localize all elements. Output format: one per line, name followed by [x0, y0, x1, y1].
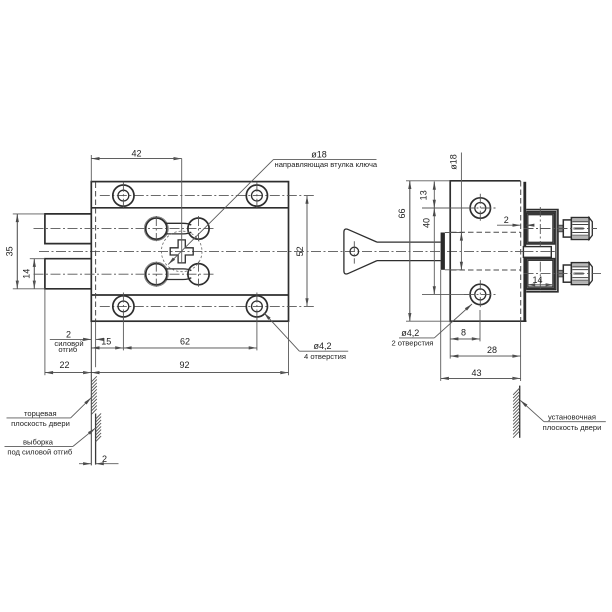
lower bolt centerline — [34, 273, 214, 275]
svg-text:13: 13 — [419, 190, 429, 200]
bottom holes centerline — [100, 305, 316, 307]
extension lines top/bottom of body — [406, 180, 450, 182]
dimension 8 — [450, 310, 480, 359]
dimension 2 (plate thickness) — [497, 215, 531, 225]
lower bolt housing — [526, 259, 554, 289]
dimension 22 — [45, 289, 91, 375]
svg-text:установочная: установочная — [548, 413, 596, 422]
door mounting plane line (установочная плоскость) — [519, 386, 521, 438]
key guide bushing (section) — [441, 233, 445, 270]
top holes centerline — [100, 195, 316, 197]
lower strip divider line — [91, 294, 288, 296]
bushing edge extension lines — [445, 232, 464, 234]
recess line (выборка под силовой отгиб) — [95, 414, 97, 465]
upper strip divider line — [91, 207, 288, 209]
upper knob centerline — [524, 228, 598, 230]
svg-text:42: 42 — [131, 148, 141, 158]
corner hole bottom-left — [113, 293, 134, 321]
svg-text:8: 8 — [461, 328, 466, 338]
middle tongue — [523, 247, 551, 258]
dimension o18 (bushing) — [448, 153, 461, 270]
leader выборка под силовой отгиб — [5, 428, 96, 456]
lower knob — [558, 263, 592, 285]
corner hole top-left — [113, 182, 134, 210]
svg-text:торцевая: торцевая — [24, 409, 57, 418]
upper knob — [558, 218, 592, 240]
svg-text:2 отверстия: 2 отверстия — [391, 339, 433, 348]
upper keyhole slot — [144, 216, 209, 241]
label o4,2 4 отверстия — [264, 313, 348, 361]
lower knob centerline — [524, 273, 602, 275]
dimension 2 (recess depth) — [79, 454, 119, 464]
bracket inner outline — [526, 212, 556, 290]
mounting plate (thick section) — [523, 182, 526, 321]
extension line at cross center (42 dim) — [181, 159, 183, 263]
lock body outline (side view) — [450, 181, 526, 321]
svg-text:22: 22 — [59, 360, 69, 370]
svg-text:28: 28 — [487, 345, 497, 355]
dimension 14 — [22, 259, 45, 289]
svg-text:40: 40 — [422, 218, 432, 228]
upper bolt centerline — [34, 228, 214, 230]
bracket outer outline — [526, 210, 558, 292]
svg-text:4 отверстия: 4 отверстия — [304, 352, 346, 361]
svg-text:плоскость двери: плоскость двери — [11, 419, 70, 428]
main horizontal centerline — [39, 250, 555, 252]
svg-text:52: 52 — [295, 246, 305, 256]
svg-text:2: 2 — [504, 215, 509, 225]
svg-text:под силовой отгиб: под силовой отгиб — [7, 448, 73, 457]
upper bolt tab — [45, 214, 91, 244]
extension lines at side holes — [422, 207, 471, 209]
svg-text:66: 66 — [397, 208, 407, 218]
dimension 52 — [295, 196, 307, 307]
leader торцевая плоскость двери — [7, 398, 92, 428]
svg-text:ø18: ø18 — [448, 154, 458, 170]
dimension 66 — [397, 181, 410, 321]
svg-text:ø4,2: ø4,2 — [401, 328, 419, 338]
svg-text:выборка: выборка — [23, 437, 54, 446]
dimension 13 and 40 — [419, 182, 435, 295]
svg-text:2: 2 — [102, 454, 107, 464]
svg-text:плоскость двери: плоскость двери — [543, 423, 602, 432]
dashed circle o18 guide bushing — [161, 231, 202, 272]
hatching on door end plane — [91, 376, 97, 414]
side hole top — [464, 194, 497, 223]
lock plate outline (front view) — [91, 182, 288, 322]
svg-text:ø4,2: ø4,2 — [313, 341, 331, 351]
label o4,2 2 отверстия — [391, 304, 472, 348]
dimension 62 — [123, 317, 257, 350]
svg-text:направляющая втулка ключа: направляющая втулка ключа — [275, 160, 378, 169]
dimension 35 — [5, 214, 45, 289]
dimension 2 (силовой отгиб) — [50, 329, 102, 354]
hidden bolt slot lines — [451, 231, 521, 233]
leader установочная плоскость двери — [520, 400, 606, 432]
upper bolt housing — [526, 213, 554, 244]
cross keyway — [170, 240, 193, 263]
svg-text:15: 15 — [101, 337, 111, 347]
dimension 28 — [450, 321, 520, 381]
hidden front face of mounting plate — [520, 181, 522, 321]
label o18 направляющая втулка ключа — [168, 149, 378, 264]
svg-text:35: 35 — [5, 246, 15, 256]
key — [344, 229, 441, 274]
hidden bend line (силовой отгиб) — [95, 183, 97, 321]
hatching on recess line — [96, 413, 102, 441]
corner hole top-right — [246, 182, 267, 210]
svg-text:62: 62 — [180, 337, 190, 347]
svg-text:14: 14 — [532, 275, 542, 285]
dimension 42 — [91, 148, 181, 181]
housings vertical centerline — [539, 207, 541, 247]
side hole bottom — [464, 280, 497, 309]
lower keyhole slot — [144, 262, 209, 287]
svg-text:43: 43 — [471, 368, 481, 378]
svg-text:отгиб: отгиб — [58, 345, 78, 354]
dimension 43 — [441, 270, 521, 381]
dimension 92 — [91, 321, 288, 375]
svg-text:2: 2 — [66, 329, 71, 339]
hatching on mounting plane — [513, 388, 520, 438]
svg-text:ø18: ø18 — [311, 149, 327, 159]
corner hole bottom-right — [246, 293, 267, 321]
lower bolt tab — [45, 259, 91, 289]
svg-text:92: 92 — [179, 360, 189, 370]
dimension 14 (housing width) — [527, 275, 554, 285]
svg-text:14: 14 — [22, 269, 32, 279]
dimension 15 — [91, 337, 123, 348]
door end plane line (торцевая плоскость) — [90, 321, 92, 465]
